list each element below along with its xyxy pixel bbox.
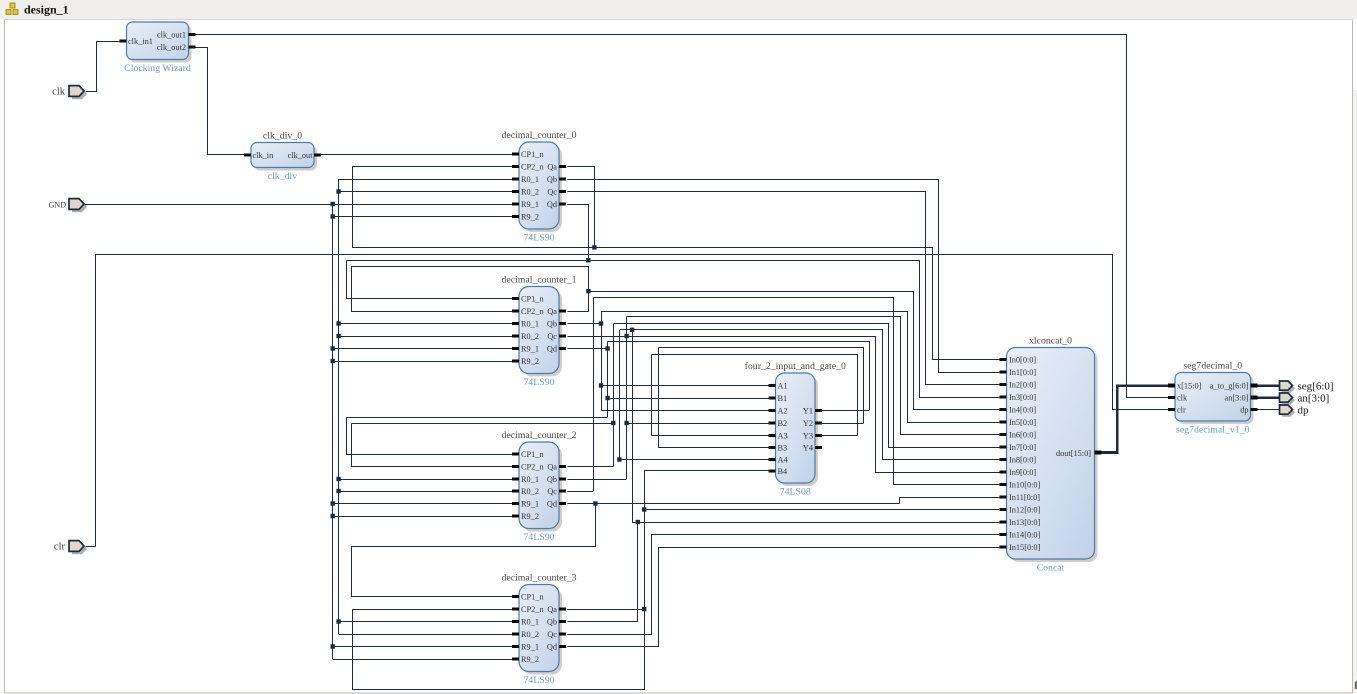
block decimal_counter_0 (74LS90) bbox=[501, 130, 576, 244]
wire Qd c1 cascade to CP1_n c2 bbox=[347, 418, 513, 455]
pin stub A3 bbox=[769, 434, 776, 437]
pin stub clk_out div bbox=[314, 154, 321, 157]
wire GND riser bbox=[332, 204, 334, 659]
svg-text:dout[15:0]: dout[15:0] bbox=[1056, 449, 1091, 458]
pin stub CP1_n c0 bbox=[512, 153, 519, 156]
svg-text:xlconcat_0: xlconcat_0 bbox=[1029, 336, 1072, 347]
svg-text:Qc: Qc bbox=[547, 332, 557, 341]
wire A4 in bbox=[619, 459, 770, 461]
output port seg[6:0] bbox=[1280, 381, 1334, 393]
svg-text:In10[0:0]: In10[0:0] bbox=[1009, 480, 1041, 489]
wire clr port to seg7decimal clr bbox=[86, 255, 1169, 547]
svg-text:R0_1: R0_1 bbox=[521, 175, 539, 184]
pin stub a_to_g[6:0] bbox=[1251, 384, 1258, 388]
wire Qa c2 riser bbox=[613, 324, 615, 467]
svg-text:B4: B4 bbox=[778, 467, 789, 476]
wire GND to R9_1 c0 bbox=[85, 204, 512, 206]
svg-text:Qd: Qd bbox=[547, 499, 558, 508]
wire B3 riser bbox=[658, 348, 660, 448]
pin stub Qa c2 bbox=[559, 465, 566, 468]
svg-text:Concat: Concat bbox=[1037, 563, 1065, 574]
wire dp to dp port bbox=[1258, 409, 1280, 411]
svg-text:A1: A1 bbox=[778, 381, 788, 390]
svg-text:Qc: Qc bbox=[547, 187, 557, 196]
pin stub Qb c2 bbox=[559, 478, 566, 481]
wire B4 in bbox=[644, 470, 770, 472]
svg-text:decimal_counter_2: decimal_counter_2 bbox=[501, 430, 576, 441]
pin stub R9_1 c0 bbox=[512, 203, 519, 206]
pin stub CP1_n c3 bbox=[512, 595, 519, 598]
svg-text:dp: dp bbox=[1240, 406, 1248, 415]
junction R0_1 c2 tap bbox=[336, 477, 340, 481]
pin stub dout[15:0] bbox=[1095, 451, 1102, 455]
svg-text:clr: clr bbox=[1177, 406, 1186, 415]
svg-text:an[3:0]: an[3:0] bbox=[1225, 394, 1249, 403]
svg-text:Qb: Qb bbox=[547, 319, 557, 328]
pin stub In10[0:0] bbox=[1000, 483, 1007, 486]
junction GND riser top bbox=[331, 202, 335, 206]
svg-text:CP1_n: CP1_n bbox=[521, 294, 544, 303]
junction Qa c0 T bbox=[592, 245, 596, 249]
pin stub A2 bbox=[769, 409, 776, 412]
junction B1 tap bbox=[605, 396, 609, 400]
junction A4 tap bbox=[617, 457, 621, 461]
pin stub R0_1 c3 bbox=[512, 620, 519, 623]
wire B1 in bbox=[608, 398, 770, 400]
svg-text:74LS90: 74LS90 bbox=[523, 377, 554, 388]
svg-text:decimal_counter_1: decimal_counter_1 bbox=[501, 275, 576, 286]
block decimal_counter_1 (74LS90) bbox=[501, 275, 576, 389]
wire a_to_g to seg port bbox=[1258, 384, 1280, 387]
junction Qd c1 T bbox=[605, 346, 609, 350]
svg-text:a_to_g[6:0]: a_to_g[6:0] bbox=[1210, 382, 1249, 391]
wire Qc c1 / Qb c2 riser bbox=[626, 317, 628, 480]
pin stub Qc c1 bbox=[559, 335, 566, 338]
pin stub B1 bbox=[769, 397, 776, 400]
svg-text:decimal_counter_0: decimal_counter_0 bbox=[501, 130, 576, 141]
junction A1 tap bbox=[599, 383, 603, 387]
wire R0_2 c3 bbox=[339, 634, 512, 636]
svg-text:In7[0:0]: In7[0:0] bbox=[1009, 443, 1036, 452]
pin stub In15[0:0] bbox=[1000, 546, 1007, 549]
wire Y3 out bbox=[820, 435, 857, 437]
wire Qd c1 out bbox=[568, 348, 608, 350]
pin stub Qb c1 bbox=[559, 322, 566, 325]
wire R9_1 c2 bbox=[333, 503, 512, 505]
wire Qa c0 lane to In0 and CP2 c0 bbox=[353, 167, 1000, 360]
wire clk_out2 to clk_div clk_in bbox=[196, 48, 246, 155]
wire Y2 out bbox=[820, 423, 863, 425]
junction R9_2 c0 tap bbox=[331, 214, 335, 218]
svg-text:B1: B1 bbox=[778, 394, 788, 403]
junction R0_2 c1 tap bbox=[336, 334, 340, 338]
pin stub R9_2 c1 bbox=[512, 360, 519, 363]
pin stub Y3 bbox=[815, 434, 822, 437]
pin stub Qa c3 bbox=[559, 608, 566, 611]
wire R0_2 c0 bbox=[339, 191, 512, 193]
wire Qa c2 out bbox=[568, 466, 614, 468]
block decimal_counter_2 (74LS90) bbox=[501, 430, 576, 543]
wire Y1 out bbox=[820, 410, 869, 412]
svg-text:R9_1: R9_1 bbox=[521, 499, 539, 508]
pin stub In8[0:0] bbox=[1000, 458, 1007, 461]
pin stub CP2_n c0 bbox=[512, 165, 519, 168]
pin stub dp pin bbox=[1251, 408, 1258, 411]
wire clk port to clk_in1 bbox=[86, 42, 120, 92]
pin stub Qd c0 bbox=[559, 203, 566, 206]
wire R0_1 c2 bbox=[339, 479, 512, 481]
svg-text:clk_in: clk_in bbox=[253, 151, 275, 160]
svg-text:dp: dp bbox=[1298, 405, 1310, 417]
wire Qd c0 out bbox=[568, 205, 589, 261]
junction R0_1 c1 tap bbox=[336, 321, 340, 325]
output port an[3:0] bbox=[1280, 393, 1330, 405]
junction Qb c1 T bbox=[599, 321, 603, 325]
svg-text:74LS90: 74LS90 bbox=[523, 532, 554, 543]
wire Qa c2 feedback to CP2_n c2 bbox=[352, 424, 513, 467]
input port clr bbox=[54, 541, 87, 555]
junction R9_1 c1 tap bbox=[331, 346, 335, 350]
pin stub clk_out2 bbox=[189, 46, 196, 49]
junction R0_1 c3 tap bbox=[336, 619, 340, 623]
wire Qa c2 feedback lane bbox=[351, 423, 613, 425]
svg-text:In11[0:0]: In11[0:0] bbox=[1009, 493, 1040, 502]
svg-text:GND: GND bbox=[49, 201, 67, 210]
output port dp bbox=[1280, 405, 1310, 417]
svg-text:Qa: Qa bbox=[547, 162, 557, 171]
svg-text:seg7decimal_0: seg7decimal_0 bbox=[1183, 361, 1242, 372]
svg-text:In1[0:0]: In1[0:0] bbox=[1009, 368, 1036, 377]
wire Qd c1 cascade lane bbox=[347, 417, 608, 419]
block Clocking Wizard U1 bbox=[124, 22, 191, 74]
svg-text:CP2_n: CP2_n bbox=[521, 162, 544, 171]
junction R9_1 c3 tap bbox=[331, 644, 335, 648]
block xlconcat_0 (Concat) bbox=[1007, 336, 1098, 574]
wire R9_2 c0 bbox=[333, 216, 512, 218]
svg-text:Qd: Qd bbox=[547, 642, 558, 651]
svg-text:In13[0:0]: In13[0:0] bbox=[1009, 518, 1041, 527]
pin stub CP2_n c3 bbox=[512, 608, 519, 611]
svg-text:B3: B3 bbox=[778, 443, 788, 452]
wire R0_2 c1 bbox=[339, 336, 512, 338]
junction Qa c1 T bbox=[586, 289, 590, 293]
wire Qc c0 to In2 bbox=[568, 192, 1000, 385]
wire clk_out1 to seg7decimal clk bbox=[196, 35, 1169, 398]
wire Y2 lane bbox=[659, 348, 864, 424]
pin stub Qc c0 bbox=[559, 190, 566, 193]
pin stub In11[0:0] bbox=[1000, 496, 1007, 499]
svg-text:R9_1: R9_1 bbox=[521, 200, 539, 209]
svg-text:CP1_n: CP1_n bbox=[521, 592, 544, 601]
wire R9_2 c1 bbox=[333, 361, 512, 363]
pin stub In1[0:0] bbox=[1000, 371, 1007, 374]
junction R9_1 c2 tap bbox=[331, 501, 335, 505]
wire R0_2 c2 bbox=[339, 491, 512, 493]
junction R9_2 c2 tap bbox=[331, 514, 335, 518]
svg-text:In5[0:0]: In5[0:0] bbox=[1009, 418, 1036, 427]
pin stub In13[0:0] bbox=[1000, 521, 1007, 524]
design_1 tab icon bbox=[6, 3, 18, 15]
wire Qb c0 to In1 bbox=[568, 180, 1000, 373]
junction R0_2 c2 tap bbox=[336, 489, 340, 493]
pin stub R0_2 c2 bbox=[512, 490, 519, 493]
svg-text:R9_2: R9_2 bbox=[521, 512, 539, 521]
wire Qa c1 lane to In4 bbox=[589, 292, 1000, 410]
junction R9_2 c1 tap bbox=[331, 359, 335, 363]
wire Qa c3 out bbox=[568, 609, 645, 611]
pin stub Y4 bbox=[815, 446, 822, 449]
pin stub R0_2 c1 bbox=[512, 335, 519, 338]
pin stub Qb c0 bbox=[559, 178, 566, 181]
wire clk_div clk_out to decimal_counter_0 CP1_n bbox=[321, 154, 512, 156]
svg-text:R0_2: R0_2 bbox=[521, 630, 539, 639]
wire In12 in bbox=[644, 509, 999, 511]
svg-text:clk_in1: clk_in1 bbox=[128, 37, 153, 46]
wire Qa c3 feedback to CP2_n c3 bbox=[353, 471, 645, 690]
pin stub In14[0:0] bbox=[1000, 533, 1007, 536]
svg-text:clr: clr bbox=[54, 542, 66, 553]
svg-text:In0[0:0]: In0[0:0] bbox=[1009, 355, 1036, 364]
wire A2 in bbox=[601, 410, 770, 412]
pin stub R0_1 c0 bbox=[512, 178, 519, 181]
junction B2 tap bbox=[624, 421, 628, 425]
wire Qb c1 riser bbox=[601, 311, 603, 411]
pin stub In0[0:0] bbox=[1000, 358, 1007, 361]
wire Y3 lane bbox=[652, 355, 858, 436]
wire Qd c2 out bbox=[568, 503, 900, 505]
svg-text:In14[0:0]: In14[0:0] bbox=[1009, 530, 1041, 539]
svg-text:In15[0:0]: In15[0:0] bbox=[1009, 543, 1041, 552]
pin stub R9_1 c1 bbox=[512, 347, 519, 350]
svg-text:Y2: Y2 bbox=[803, 419, 813, 428]
pin stub A4 bbox=[769, 458, 776, 461]
svg-text:Qa: Qa bbox=[547, 307, 557, 316]
junction In12 tap bbox=[642, 507, 646, 511]
svg-text:A4: A4 bbox=[778, 455, 789, 464]
pin stub In6[0:0] bbox=[1000, 433, 1007, 436]
pin stub Qa c1 bbox=[559, 310, 566, 313]
svg-text:four_2_input_and_gate_0: four_2_input_and_gate_0 bbox=[745, 361, 846, 372]
wire R0 riser bbox=[338, 179, 340, 634]
input port clk bbox=[52, 86, 87, 100]
wire dout to x[15:0] bbox=[1102, 386, 1169, 453]
svg-text:Qa: Qa bbox=[547, 462, 557, 471]
svg-text:74LS90: 74LS90 bbox=[523, 675, 554, 686]
svg-text:Qd: Qd bbox=[547, 200, 558, 209]
right scrollbar strip bbox=[1353, 90, 1357, 676]
junction In13 riser top tap bbox=[630, 328, 634, 332]
wire Qb c2 out bbox=[568, 479, 627, 481]
pin stub clk_in1 bbox=[120, 40, 127, 43]
pin stub Qc c3 bbox=[559, 633, 566, 636]
svg-text:Qb: Qb bbox=[547, 617, 557, 626]
svg-text:Qc: Qc bbox=[547, 630, 557, 639]
wire Qb c1 out bbox=[568, 323, 602, 325]
pin stub clk_in div bbox=[244, 154, 251, 157]
junction R0_2 c0 tap bbox=[336, 189, 340, 193]
wire R9_2 c3 bbox=[333, 659, 512, 661]
pin stub x[15:0] bbox=[1168, 384, 1175, 388]
wire Qd c3 to In15 bbox=[568, 548, 1000, 647]
input port GND bbox=[49, 199, 87, 213]
svg-text:design_1: design_1 bbox=[24, 3, 69, 17]
wire R9_1 c1 bbox=[333, 348, 512, 350]
svg-text:clk_div_0: clk_div_0 bbox=[263, 131, 302, 142]
wire R9_2 c2 bbox=[333, 516, 512, 518]
wire R9_1 c3 bbox=[333, 646, 512, 648]
wire lane to In6 bbox=[627, 317, 1000, 435]
svg-text:Qb: Qb bbox=[547, 175, 557, 184]
pin stub R0_1 c2 bbox=[512, 478, 519, 481]
wire Y1 lane bbox=[608, 342, 870, 411]
wire Qa c1 feedback to CP2_n c1 bbox=[352, 267, 589, 312]
svg-text:In8[0:0]: In8[0:0] bbox=[1009, 455, 1036, 464]
svg-text:seg[6:0]: seg[6:0] bbox=[1298, 381, 1334, 393]
svg-text:decimal_counter_3: decimal_counter_3 bbox=[501, 573, 576, 584]
svg-text:CP2_n: CP2_n bbox=[521, 307, 544, 316]
svg-text:clk_out2: clk_out2 bbox=[157, 43, 186, 52]
svg-text:74LS08: 74LS08 bbox=[780, 487, 811, 498]
svg-text:Qa: Qa bbox=[547, 605, 557, 614]
svg-text:A3: A3 bbox=[778, 431, 788, 440]
wire CP2_n c0 in bbox=[352, 166, 512, 168]
pin stub In9[0:0] bbox=[1000, 471, 1007, 474]
svg-text:CP1_n: CP1_n bbox=[521, 450, 544, 459]
pin stub Y1 bbox=[815, 409, 822, 412]
junction Qc c1 T bbox=[624, 334, 628, 338]
svg-text:CP1_n: CP1_n bbox=[521, 150, 544, 159]
svg-text:In2[0:0]: In2[0:0] bbox=[1009, 380, 1036, 389]
pin stub Qb c3 bbox=[559, 620, 566, 623]
junction Qa c2 T bbox=[611, 421, 615, 425]
svg-text:Qd: Qd bbox=[547, 344, 558, 353]
svg-text:clk_div: clk_div bbox=[268, 171, 297, 182]
pin stub Qd c2 bbox=[559, 502, 566, 505]
wire R0_1 c1 bbox=[339, 323, 512, 325]
pin stub clk seg7 bbox=[1168, 396, 1175, 399]
svg-text:Qb: Qb bbox=[547, 475, 557, 484]
junction Qa c3 T bbox=[642, 607, 646, 611]
pin stub In2[0:0] bbox=[1000, 383, 1007, 386]
svg-text:clk: clk bbox=[1177, 394, 1188, 403]
pin stub Qd c1 bbox=[559, 347, 566, 350]
wire Qb c3 riser bbox=[568, 523, 638, 622]
svg-text:In6[0:0]: In6[0:0] bbox=[1009, 430, 1036, 439]
svg-text:R0_1: R0_1 bbox=[521, 475, 539, 484]
pin stub clk_out1 bbox=[189, 33, 196, 36]
svg-text:In4[0:0]: In4[0:0] bbox=[1009, 405, 1036, 414]
wire Qc c2 riser bbox=[593, 298, 595, 491]
wire lane to In7 bbox=[614, 324, 1000, 448]
svg-text:R0_2: R0_2 bbox=[521, 187, 539, 196]
svg-text:Qc: Qc bbox=[547, 487, 557, 496]
svg-text:R9_2: R9_2 bbox=[521, 212, 539, 221]
svg-text:clk_out1: clk_out1 bbox=[157, 30, 186, 39]
svg-text:clk: clk bbox=[52, 87, 66, 98]
svg-text:R9_2: R9_2 bbox=[521, 655, 539, 664]
junction Qb c3 to In13 tap bbox=[636, 520, 640, 524]
pin stub CP1_n c1 bbox=[512, 297, 519, 300]
svg-text:x[15:0]: x[15:0] bbox=[1177, 382, 1202, 391]
pin stub Qa c0 bbox=[559, 165, 566, 168]
pin stub Y2 bbox=[815, 422, 822, 425]
block four_2_input_and_gate_0 (74LS08) bbox=[745, 361, 846, 498]
wire Qd c2 cascade to CP1_n c3 bbox=[352, 504, 596, 597]
svg-text:R9_1: R9_1 bbox=[521, 642, 539, 651]
block decimal_counter_3 (74LS90) bbox=[501, 573, 576, 687]
pin stub In4[0:0] bbox=[1000, 408, 1007, 411]
wire R0_1 c3 bbox=[339, 621, 512, 623]
pin stub Qc c2 bbox=[559, 490, 566, 493]
svg-text:R0_2: R0_2 bbox=[521, 332, 539, 341]
svg-text:In3[0:0]: In3[0:0] bbox=[1009, 393, 1036, 402]
svg-text:Y3: Y3 bbox=[803, 431, 813, 440]
pin stub R9_1 c3 bbox=[512, 645, 519, 648]
svg-text:CP2_n: CP2_n bbox=[521, 462, 544, 471]
pin stub CP2_n c1 bbox=[512, 310, 519, 313]
svg-text:B2: B2 bbox=[778, 419, 788, 428]
svg-text:R0_1: R0_1 bbox=[521, 319, 539, 328]
svg-text:In9[0:0]: In9[0:0] bbox=[1009, 468, 1036, 477]
wire lane-In8 left riser bbox=[619, 330, 621, 460]
wire Qa c0 out bbox=[568, 167, 595, 248]
svg-text:an[3:0]: an[3:0] bbox=[1298, 393, 1330, 405]
pin stub R0_1 c1 bbox=[512, 322, 519, 325]
wire R0_1 c0 bbox=[339, 179, 512, 181]
pin stub R0_2 c0 bbox=[512, 190, 519, 193]
pin stub R9_2 c3 bbox=[512, 658, 519, 661]
svg-text:R9_1: R9_1 bbox=[521, 344, 539, 353]
pin stub B2 bbox=[769, 422, 776, 425]
pin stub B3 bbox=[769, 446, 776, 449]
svg-text:R0_2: R0_2 bbox=[521, 487, 539, 496]
wire B2 in bbox=[627, 423, 770, 425]
wire Qc c3 to In14 bbox=[568, 535, 1000, 635]
wire lane to In8 bbox=[620, 330, 1000, 460]
svg-text:74LS90: 74LS90 bbox=[523, 233, 554, 244]
pin stub CP2_n c2 bbox=[512, 465, 519, 468]
pin stub CP1_n c2 bbox=[512, 453, 519, 456]
pin stub In3[0:0] bbox=[1000, 396, 1007, 399]
pin stub R9_2 c0 bbox=[512, 215, 519, 218]
svg-text:R9_2: R9_2 bbox=[521, 357, 539, 366]
wire Qc c1 out / lane to In9 bbox=[568, 337, 1000, 473]
svg-text:R0_1: R0_1 bbox=[521, 617, 539, 626]
pin stub In5[0:0] bbox=[1000, 421, 1007, 424]
svg-text:Y1: Y1 bbox=[803, 406, 813, 415]
svg-text:clk_out: clk_out bbox=[288, 151, 314, 160]
svg-text:CP2_n: CP2_n bbox=[521, 605, 544, 614]
svg-text:In12[0:0]: In12[0:0] bbox=[1009, 505, 1041, 514]
junction Qd c0 T bbox=[586, 258, 590, 262]
pin stub R0_2 c3 bbox=[512, 633, 519, 636]
wire In13 riser lane bbox=[633, 330, 1000, 523]
wire Qd c0 lane to In3 bbox=[347, 261, 1000, 398]
pin stub A1 bbox=[769, 384, 776, 387]
wire A1 in bbox=[601, 385, 770, 387]
pin stub clr seg7 bbox=[1168, 408, 1175, 411]
pin stub R9_1 c2 bbox=[512, 502, 519, 505]
pin stub Qd c3 bbox=[559, 645, 566, 648]
svg-text:seg7decimal_v1_0: seg7decimal_v1_0 bbox=[1176, 425, 1250, 436]
wire Qd c1 riser bbox=[607, 342, 609, 417]
pin stub In12[0:0] bbox=[1000, 508, 1007, 511]
wire Qc c2 out bbox=[568, 491, 594, 493]
pin stub In7[0:0] bbox=[1000, 446, 1007, 449]
block clk_div_0 bbox=[251, 131, 317, 183]
pin stub an[3:0] pin bbox=[1251, 396, 1258, 400]
wire A3 in bbox=[652, 435, 771, 437]
